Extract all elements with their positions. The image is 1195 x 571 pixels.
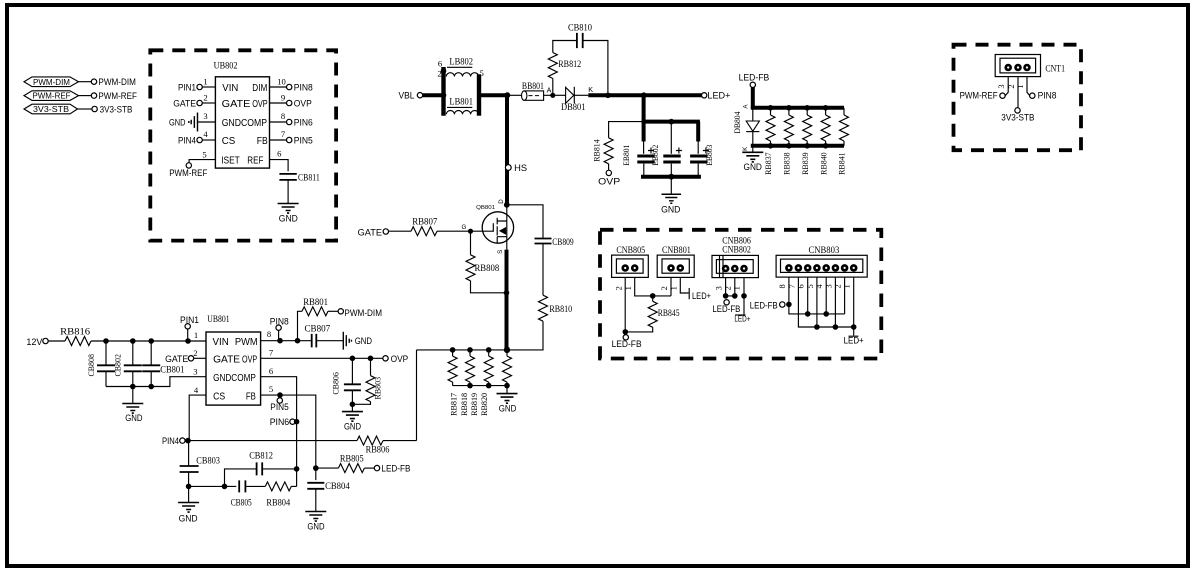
- svg-text:RB806: RB806: [366, 444, 390, 454]
- svg-text:LED-FB: LED-FB: [739, 72, 770, 82]
- junction RB803 top: [368, 356, 374, 362]
- svg-text:RB817: RB817: [449, 392, 459, 416]
- svg-text:CNB805: CNB805: [616, 245, 645, 255]
- junction RB818 rail: [467, 347, 473, 353]
- net tag LED+ at CNB802: [734, 313, 750, 323]
- UB802 pin 2 stub GATE: [173, 93, 215, 109]
- resistor RB803: [352, 358, 382, 404]
- dashed enclosure around CNT1: [954, 45, 1082, 151]
- UB802 pin names row2 GATE OVP: [222, 99, 268, 110]
- wire CB812 to PIN6 drop: [262, 468, 296, 470]
- label RB841: [837, 152, 847, 175]
- svg-text:4: 4: [203, 129, 208, 139]
- svg-text:LED-FB: LED-FB: [612, 339, 642, 349]
- wire drain to CB809: [507, 205, 543, 239]
- junction cap bank at LED+ rail: [641, 92, 647, 98]
- svg-text:1: 1: [203, 77, 207, 87]
- junction RB840 top: [823, 105, 829, 111]
- node PIN8 at CNT1: [1030, 91, 1057, 101]
- resistor RB808: [466, 231, 506, 293]
- pin number 1 of CNB802: [733, 286, 742, 290]
- node LED-FB top: [739, 72, 770, 87]
- pin number 2 of LB801: [437, 68, 441, 78]
- CNB805 pin 1: [631, 264, 639, 272]
- pin number 8 of CNB803: [778, 284, 787, 288]
- wire input cap bottom bar: [106, 377, 206, 387]
- resistor RB837: [766, 108, 775, 146]
- node PIN5: [270, 398, 288, 412]
- resistor RB820: [503, 350, 512, 386]
- connector CNB801 body: [657, 245, 694, 277]
- node OVP at UB801: [383, 354, 408, 364]
- resistor RB841: [840, 108, 849, 146]
- wire RB801 to PWM-DIM: [328, 310, 338, 312]
- wire CNT1 pin1 to PIN8: [1027, 77, 1030, 96]
- UB802 pin 6 stub REF wire to CB811: [270, 149, 289, 172]
- UB801 pin names row3 GNDCOMP: [213, 373, 256, 384]
- svg-text:OVP: OVP: [252, 99, 268, 110]
- pin number 7 of CNB803: [787, 284, 796, 288]
- wire CB805 to RB804: [245, 485, 265, 487]
- svg-text:LED+: LED+: [734, 313, 750, 323]
- capacitor CB806: [331, 358, 361, 404]
- svg-text:UB801: UB801: [207, 314, 229, 324]
- inductor LB802: [446, 56, 478, 76]
- junction RB845 top node: [650, 293, 656, 299]
- junction RB801 node: [295, 338, 301, 344]
- wire VBL to filter: [423, 93, 444, 97]
- resistor RB806: [357, 436, 390, 454]
- svg-text:RB803: RB803: [373, 377, 383, 400]
- svg-text:RB837: RB837: [763, 152, 773, 175]
- UB801 pin names row1 VIN PWM: [213, 337, 258, 348]
- IC UB802 body: [215, 77, 269, 168]
- svg-text:EB803: EB803: [704, 145, 714, 166]
- capacitor EB803: [690, 145, 714, 166]
- pin number 6 of LB802: [438, 59, 443, 69]
- svg-text:2: 2: [724, 286, 733, 290]
- resistor RB816: [60, 326, 91, 345]
- ground below CB811: [278, 204, 299, 224]
- capacitor CB809: [535, 237, 575, 247]
- junction RB837 bottom: [768, 143, 774, 149]
- wire to CB803 ground: [188, 486, 190, 502]
- wire EB802 drop: [670, 122, 672, 154]
- svg-text:PIN4: PIN4: [162, 436, 179, 446]
- svg-text:9: 9: [281, 93, 285, 103]
- wire CS row to PIN4 row: [189, 395, 206, 441]
- svg-text:PIN5: PIN5: [270, 402, 288, 412]
- wire rail to PIN4 row: [416, 350, 418, 441]
- svg-text:RB816: RB816: [60, 326, 91, 336]
- node HS: [505, 163, 527, 173]
- CNB803 pin 3: [832, 264, 840, 272]
- label RB838: [782, 152, 792, 175]
- junction RB838 bottom: [786, 143, 792, 149]
- svg-text:PWM-REF: PWM-REF: [33, 91, 71, 101]
- wire CNB803 pin2 drop: [844, 277, 846, 314]
- capacitor CB804: [307, 483, 324, 489]
- svg-text:6: 6: [269, 366, 274, 376]
- junction at LB802 pin 6: [441, 68, 447, 74]
- svg-text:PWM-DIM: PWM-DIM: [33, 77, 70, 87]
- svg-text:LED+: LED+: [692, 291, 711, 301]
- svg-text:A: A: [547, 85, 552, 94]
- UB802 pin 10 stub PIN8: [270, 77, 313, 93]
- wire RB816 to VIN: [91, 340, 206, 342]
- pin number 5 of LB802: [479, 68, 483, 78]
- capacitor EB801: [621, 145, 655, 166]
- pin number 7 of UB801: [269, 348, 274, 358]
- svg-text:CS: CS: [222, 136, 236, 147]
- junction CB802 top: [130, 338, 136, 344]
- svg-text:RB814: RB814: [592, 139, 602, 162]
- wire EB802 to bottom bar: [670, 164, 672, 177]
- svg-text:3V3-STB: 3V3-STB: [100, 104, 133, 114]
- svg-text:RB841: RB841: [837, 152, 847, 175]
- bar left side of LB filter: [441, 67, 445, 116]
- wire LED+ rail thick: [588, 93, 701, 97]
- wire CNB802 pin2 drop: [734, 278, 736, 296]
- junction CB801 top: [148, 338, 154, 344]
- svg-text:CS: CS: [213, 391, 225, 402]
- junction CNB803 pin1: [851, 324, 857, 330]
- label RB818: [459, 393, 469, 416]
- CNB801 pin 2: [667, 264, 675, 272]
- svg-text:CB806: CB806: [331, 372, 341, 395]
- svg-text:2: 2: [203, 93, 207, 103]
- svg-text:7: 7: [281, 129, 286, 139]
- UB802 pin 9 stub OVP: [270, 93, 312, 109]
- svg-text:RB808: RB808: [475, 263, 500, 273]
- junction CB808 top: [103, 338, 109, 344]
- svg-text:CB812: CB812: [249, 451, 273, 461]
- wire EB803 drop: [696, 122, 700, 154]
- svg-text:PWM-REF: PWM-REF: [169, 168, 208, 178]
- junction drain node: [504, 202, 510, 208]
- junction RB819 rail: [486, 347, 492, 353]
- pin number 3 of CNB803: [824, 284, 833, 288]
- net flag PWM-DIM: [24, 77, 79, 87]
- svg-text:OVP: OVP: [242, 355, 258, 366]
- wire CB807 to ground: [317, 340, 344, 342]
- pin number 3 of CNT1: [997, 84, 1006, 88]
- junction RB837 top: [768, 105, 774, 111]
- connector CNB803 body: [776, 245, 867, 277]
- wire to sense ground: [506, 386, 508, 394]
- svg-text:PIN1: PIN1: [178, 83, 196, 93]
- node LED+ output: [702, 91, 731, 101]
- svg-text:S: S: [497, 250, 504, 254]
- wire EB801 to bottom bar: [643, 164, 645, 177]
- node LED-FB at RB805: [374, 464, 410, 474]
- CNB801 pin 1: [677, 264, 685, 272]
- svg-text:PIN8: PIN8: [1038, 91, 1057, 101]
- wire RB806 to rail riser: [383, 440, 417, 442]
- wire CNB803 pin7 drop: [798, 277, 853, 327]
- wire OVP row: [261, 357, 383, 359]
- junction RB839 top: [804, 105, 810, 111]
- junction RB839 bottom: [804, 143, 810, 149]
- svg-text:GND: GND: [344, 422, 362, 432]
- svg-text:PWM-REF: PWM-REF: [960, 91, 999, 101]
- node PWM-DIM pad: [91, 77, 136, 87]
- capacitor CB802: [112, 341, 142, 387]
- wire EB801 drop: [642, 95, 646, 154]
- wire flag PWM-REF to pad: [79, 95, 92, 97]
- svg-text:CNB802: CNB802: [722, 245, 751, 255]
- svg-text:8: 8: [267, 329, 271, 339]
- svg-text:RB820: RB820: [479, 393, 489, 416]
- svg-text:5: 5: [479, 68, 483, 78]
- junction CNB803 pin3: [833, 324, 839, 330]
- wire GATE to RB807: [389, 230, 412, 232]
- svg-text:6: 6: [438, 59, 443, 69]
- wire CNB802 pin3 drop: [726, 278, 735, 296]
- svg-text:8: 8: [281, 111, 285, 121]
- svg-text:GNDCOMP: GNDCOMP: [213, 373, 256, 384]
- node LED-FB at CNB802: [712, 300, 740, 314]
- svg-text:PWM-DIM: PWM-DIM: [98, 77, 135, 87]
- diode DB804: [732, 108, 760, 146]
- wire FB row: [261, 395, 316, 480]
- wire CNB803 pin3 drop: [834, 277, 836, 327]
- svg-text:3: 3: [997, 84, 1006, 88]
- svg-text:LED-FB: LED-FB: [712, 304, 740, 314]
- wire CNB803 pin5 drop: [816, 277, 818, 327]
- svg-text:K: K: [742, 146, 749, 151]
- resistor RB807: [411, 217, 438, 236]
- svg-text:CNB801: CNB801: [662, 245, 691, 255]
- wire HS vertical thick: [505, 95, 509, 205]
- wire LED-FB top bar: [751, 106, 844, 110]
- svg-text:GND: GND: [125, 413, 143, 423]
- pin number 3 of UB801: [193, 367, 197, 377]
- wire RB814 to OVP pad: [608, 164, 610, 170]
- label RB837: [763, 152, 773, 175]
- svg-text:GND: GND: [169, 117, 186, 127]
- svg-text:VIN: VIN: [213, 337, 229, 348]
- ground DB804: [742, 152, 763, 172]
- junction CB806 top: [350, 356, 356, 362]
- svg-text:12V: 12V: [26, 337, 43, 347]
- wire PIN8 pad stub: [278, 330, 280, 340]
- svg-text:UB802: UB802: [214, 61, 238, 71]
- wire CNT1 pin2 to 3V3-STB: [1017, 77, 1019, 108]
- label RB839: [800, 152, 810, 175]
- junction PIN8 node: [277, 338, 283, 344]
- resistor RB840: [821, 108, 830, 146]
- svg-text:4: 4: [194, 385, 199, 395]
- svg-text:G: G: [461, 224, 466, 231]
- node PWM-REF at UB802: [169, 163, 208, 178]
- svg-text:5: 5: [269, 384, 273, 394]
- pin number 2 of CNB801: [660, 286, 669, 290]
- junction CB812 branch: [222, 484, 228, 490]
- node LED-FB at CNB805: [612, 335, 642, 350]
- junction RB817 rail: [450, 347, 456, 353]
- UB802 pin names row1 VIN DIM: [222, 83, 267, 94]
- node 12V input: [26, 337, 48, 347]
- wire cap bank bottom bar: [641, 175, 701, 179]
- pin number 6 of UB801: [269, 366, 274, 376]
- svg-text:RB810: RB810: [549, 304, 572, 314]
- CNT1 pin 3: [1004, 64, 1012, 72]
- wire sense resistors bottom bar: [453, 385, 507, 387]
- junction RB805 node: [313, 465, 319, 471]
- wire BB801 to node A: [544, 94, 553, 96]
- svg-text:GND: GND: [744, 162, 763, 172]
- node PIN6: [270, 417, 295, 427]
- CNB802 pin 3: [722, 265, 730, 273]
- wire cap bank top bar: [642, 120, 700, 124]
- node LED-FB at CNB803: [750, 300, 785, 310]
- svg-text:CB804: CB804: [325, 481, 350, 491]
- svg-text:OVP: OVP: [294, 99, 312, 109]
- svg-text:PWM-DIM: PWM-DIM: [344, 308, 382, 318]
- wire RB801 riser: [298, 311, 303, 340]
- wire LB filter to HS node: [481, 93, 507, 97]
- wire CNB803 pin8 LED-FB drop: [789, 277, 845, 314]
- junction source RB808: [504, 290, 510, 296]
- svg-text:7: 7: [269, 348, 274, 358]
- UB801 pin names row2 GATE OVP: [213, 355, 257, 366]
- pin number 1 of CNT1: [1016, 84, 1025, 88]
- svg-text:RB804: RB804: [266, 498, 290, 508]
- IC UB801 body: [206, 332, 261, 405]
- junction CNB803 pin4: [823, 311, 829, 317]
- UB802 pin 3 stub GND: [198, 111, 216, 122]
- wire flag 3V3-STB to pad: [78, 108, 92, 110]
- wire CNT1 pin3 to PWM-REF: [1005, 77, 1008, 96]
- net tag LED+ at CNB801: [689, 288, 711, 301]
- wire CB810 to LED+ rail: [583, 41, 608, 93]
- pin number 1 of CNB803: [843, 284, 852, 288]
- svg-text:GND: GND: [279, 213, 298, 223]
- pin number 6 of CNB803: [797, 284, 806, 288]
- junction CNB802 pin1: [741, 293, 747, 299]
- capacitor CB812: [249, 451, 273, 476]
- label CB804: [325, 481, 350, 491]
- svg-text:PIN4: PIN4: [178, 136, 196, 146]
- node PIN1: [180, 315, 199, 329]
- CNB803 pin 1: [850, 264, 858, 272]
- svg-text:RB819: RB819: [469, 393, 479, 416]
- pin number 4 of UB801: [194, 385, 199, 395]
- junction VBL rail at left bar: [441, 92, 447, 98]
- svg-text:PIN5: PIN5: [294, 136, 313, 146]
- capacitor CB803: [180, 441, 221, 487]
- capacitor CB811: [279, 173, 319, 183]
- junction gate node: [468, 229, 473, 234]
- ground cap bank: [661, 194, 681, 214]
- svg-text:FB: FB: [246, 391, 256, 402]
- svg-text:GND: GND: [499, 403, 517, 413]
- svg-text:RB845: RB845: [658, 308, 680, 318]
- junction EB802 top: [669, 119, 675, 125]
- svg-text:GND: GND: [661, 205, 681, 215]
- junction CB810 at LED+ rail: [605, 93, 611, 99]
- wire CB811 to ground: [287, 180, 289, 204]
- node A junction: [547, 85, 556, 98]
- junction CNB802 pin3: [723, 293, 729, 299]
- node PWM-REF at CNT1: [960, 91, 1006, 101]
- label G: [461, 224, 466, 231]
- svg-text:CB802: CB802: [112, 354, 122, 377]
- wire CB803 to CB805 row: [189, 485, 237, 487]
- svg-text:3V3-STB: 3V3-STB: [1001, 113, 1034, 123]
- diode DB801: [553, 85, 594, 112]
- svg-text:PIN6: PIN6: [294, 117, 313, 127]
- svg-text:VIN: VIN: [222, 83, 238, 94]
- ground below CB803: [178, 503, 199, 524]
- capacitor CB810: [568, 23, 592, 48]
- wire PIN1 pad stub: [187, 329, 189, 341]
- node VBL input: [399, 91, 423, 101]
- transistor QB801: [476, 205, 513, 250]
- svg-text:10: 10: [277, 77, 286, 87]
- capacitor CB805: [231, 480, 253, 507]
- svg-text:CNB803: CNB803: [809, 245, 840, 255]
- node 3V3-STB pad: [92, 104, 133, 114]
- UB802 pin 7 stub PIN5: [270, 129, 313, 146]
- wire GNDCOMP row to PIN6 drop: [261, 377, 297, 487]
- svg-text:ISET: ISET: [221, 155, 240, 166]
- svg-text:8: 8: [778, 284, 787, 288]
- wire RB812 to CB810: [553, 41, 577, 53]
- wire RB814 tap: [609, 122, 643, 138]
- junction PIN5 node: [277, 392, 283, 398]
- resistor RB817: [448, 350, 457, 386]
- svg-text:D: D: [498, 199, 505, 204]
- svg-text:1: 1: [194, 330, 198, 340]
- connector CNT1 body: [995, 55, 1065, 77]
- connector CNB802 CNB806 body: [712, 236, 758, 278]
- svg-text:CB810: CB810: [568, 23, 592, 33]
- wire DB801 cathode thin: [574, 94, 588, 96]
- resistor RB801: [302, 297, 328, 316]
- resistor RB804: [265, 482, 291, 508]
- capacitor EB802: [650, 145, 682, 166]
- UB802 pin 5 stub ISET to PWM-REF: [189, 149, 215, 162]
- CNT1 pin 2: [1014, 64, 1022, 72]
- junction RB819 bottom: [486, 383, 492, 389]
- node 3V3-STB at CNT1: [1001, 108, 1034, 123]
- wire GATE stub: [194, 357, 206, 359]
- junction CB812 right: [294, 466, 300, 472]
- resistor RB818: [466, 350, 475, 386]
- UB802 pin names row5 ISET REF: [221, 155, 263, 166]
- svg-text:DB801: DB801: [561, 102, 586, 112]
- pin number 8 of UB801: [267, 329, 271, 339]
- pin number 2 of CNT1: [1007, 84, 1016, 88]
- label RB808: [475, 263, 500, 273]
- svg-text:RB839: RB839: [800, 152, 810, 175]
- pin number 1 of UB801: [194, 330, 198, 340]
- wire flag PWM-DIM to pad: [79, 81, 92, 83]
- wire CB812 branch riser: [225, 469, 257, 487]
- wire PWM row to CB807: [261, 340, 311, 342]
- resistor RB819: [484, 350, 493, 386]
- svg-text:RB812: RB812: [558, 59, 581, 69]
- svg-text:GATE: GATE: [173, 99, 196, 109]
- resistor RB814: [592, 138, 614, 164]
- wire gate node to MOSFET gate: [471, 230, 494, 232]
- svg-text:RB818: RB818: [459, 393, 469, 416]
- wire RB804 to PIN6 drop: [291, 485, 296, 487]
- svg-text:5: 5: [202, 149, 206, 159]
- wire PIN4 row to RB806: [185, 440, 357, 442]
